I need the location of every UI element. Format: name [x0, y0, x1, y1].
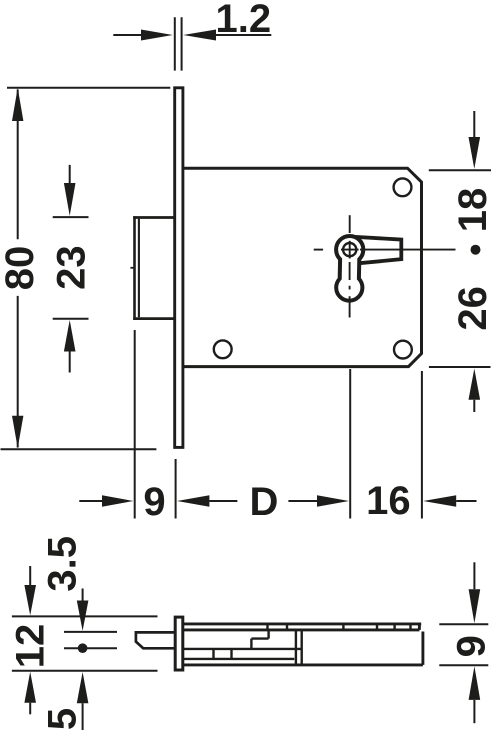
- svg-text:12: 12: [9, 624, 53, 669]
- svg-text:18: 18: [451, 188, 495, 233]
- svg-text:16: 16: [366, 479, 411, 523]
- svg-text:3.5: 3.5: [41, 536, 85, 592]
- svg-text:80: 80: [0, 246, 42, 291]
- svg-text:23: 23: [49, 245, 93, 290]
- svg-text:26: 26: [451, 286, 495, 331]
- svg-text:9: 9: [143, 480, 165, 524]
- svg-text:9: 9: [450, 635, 494, 657]
- svg-text:5: 5: [40, 708, 84, 730]
- svg-text:1.2: 1.2: [215, 0, 271, 41]
- svg-text:D: D: [250, 480, 279, 524]
